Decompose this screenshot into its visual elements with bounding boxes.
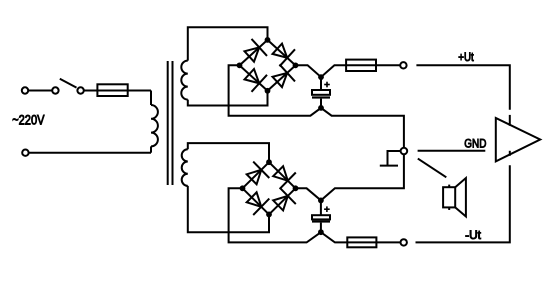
svg-text:~220V: ~220V: [12, 112, 44, 127]
svg-text:+Ut: +Ut: [458, 52, 474, 64]
svg-text:-Ut: -Ut: [465, 230, 482, 242]
svg-text:GND: GND: [464, 137, 486, 151]
